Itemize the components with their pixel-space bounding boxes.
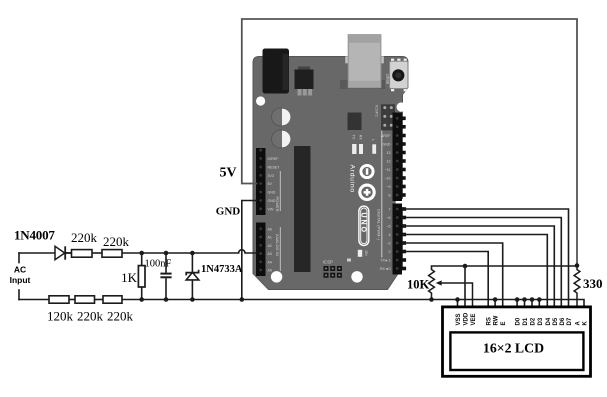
ICSP header <box>324 266 342 278</box>
svg-text:3V3: 3V3 <box>268 174 274 178</box>
LED RX <box>359 144 363 154</box>
mounting hole bottom-left <box>271 271 282 282</box>
wire D0 stub <box>516 300 518 307</box>
svg-text:~10: ~10 <box>384 177 390 181</box>
svg-text:4: 4 <box>389 233 391 237</box>
svg-text:E: E <box>501 321 507 325</box>
silkscreen divider line <box>381 131 383 258</box>
wire digital pin3 to LCD E <box>402 243 503 307</box>
node junction pot bottom on GND rail <box>429 297 434 302</box>
USB pad on board <box>340 80 385 89</box>
wire digital pin6 to LCD D6 <box>402 218 561 307</box>
wire VSS stub <box>457 300 459 307</box>
header silkscreen labels <box>268 134 392 273</box>
IC ATmega16U2 <box>348 113 362 131</box>
svg-text:2: 2 <box>389 250 391 254</box>
capacitor C6 electrolytic <box>272 130 290 148</box>
svg-text:~3: ~3 <box>386 242 390 246</box>
wire RW stub <box>494 300 496 307</box>
node junction D3 <box>537 297 542 302</box>
svg-text:220k: 220k <box>107 309 134 324</box>
svg-text:VIN: VIN <box>268 207 274 211</box>
wire digital pin7 to LCD D7 <box>402 209 569 307</box>
svg-text:D2: D2 <box>531 317 537 325</box>
svg-text:POWER: POWER <box>275 197 280 212</box>
svg-text:~9: ~9 <box>386 185 390 189</box>
node junction zener bottom <box>190 297 195 302</box>
svg-text:Arduino: Arduino <box>349 165 356 193</box>
pin nubs right headers <box>402 117 407 271</box>
wire digital pin5 to LCD D5 <box>402 226 554 307</box>
svg-text:TX: TX <box>352 135 356 140</box>
svg-text:RX◄0: RX◄0 <box>380 267 391 271</box>
svg-text:7: 7 <box>389 208 391 212</box>
svg-text:1K: 1K <box>121 270 138 285</box>
wire D3 stub <box>538 300 540 307</box>
digital header strip upper <box>393 113 403 202</box>
svg-text:~6: ~6 <box>386 216 390 220</box>
svg-text:VDD: VDD <box>464 312 470 325</box>
reset button SW1 <box>391 59 394 63</box>
svg-text:16×2 LCD: 16×2 LCD <box>483 341 544 356</box>
node junction RW on GND rail <box>493 297 498 302</box>
svg-text:RW: RW <box>494 315 500 325</box>
svg-text:12: 12 <box>387 160 391 164</box>
svg-text:D7: D7 <box>567 317 573 325</box>
node junction 5V/330/pot-top <box>575 263 580 268</box>
wire digital pin2 to LCD RS <box>402 252 488 307</box>
node junction GND wire to bottom rail <box>240 297 245 302</box>
svg-text:D0: D0 <box>516 317 522 325</box>
digital header strip lower <box>393 204 403 275</box>
wire bottom rail (GND rail, AC- to LCD K) <box>19 299 49 301</box>
LED ON <box>358 250 362 257</box>
mounting hole top-left <box>256 96 265 105</box>
wire digital pin4 to LCD D4 <box>402 235 547 307</box>
UNO oval logo <box>359 206 369 245</box>
node junction zener top <box>190 251 195 256</box>
svg-text:RESET: RESET <box>386 73 390 84</box>
wire 5V from Arduino 5V pin up over the top to right side <box>242 19 577 266</box>
node junction D1 <box>522 297 527 302</box>
capacitor C1 100nF <box>160 253 171 300</box>
wire GND from Arduino GND pin down to bottom rail <box>242 201 257 300</box>
svg-text:GND: GND <box>216 206 241 218</box>
svg-text:GND: GND <box>383 143 391 147</box>
wire 5V rail to pot top and VDD <box>432 266 578 270</box>
svg-text:RX: RX <box>359 135 363 141</box>
resistor R5 220k (bottom) <box>103 296 122 303</box>
svg-text:220k: 220k <box>77 309 104 324</box>
resistor R2 220k (top) <box>102 250 122 258</box>
svg-text:RESET: RESET <box>268 166 281 170</box>
diode D1 1N4007 <box>55 246 72 259</box>
svg-text:A4: A4 <box>268 260 272 264</box>
svg-text:A3: A3 <box>268 252 272 256</box>
svg-text:D5: D5 <box>553 317 559 325</box>
svg-text:1N4733A: 1N4733A <box>201 264 243 275</box>
svg-text:220k: 220k <box>103 234 130 249</box>
node junction VSS on GND rail <box>455 297 460 302</box>
LED TX <box>352 144 356 154</box>
wire D2 stub <box>531 300 533 307</box>
resistor R6 1K (vertical) <box>138 253 145 300</box>
node AC top terminal tick <box>18 253 20 263</box>
svg-text:DIGITAL (PWM~): DIGITAL (PWM~) <box>376 209 381 241</box>
resistor R1 220k (top) <box>72 250 93 258</box>
svg-text:D6: D6 <box>560 317 566 325</box>
svg-text:1N4007: 1N4007 <box>14 228 55 243</box>
svg-text:A5: A5 <box>268 269 272 273</box>
svg-text:GND: GND <box>268 199 276 203</box>
mounting hole bottom-right <box>351 271 362 282</box>
header pin dots <box>259 117 398 272</box>
svg-text:ICSP2: ICSP2 <box>375 105 380 117</box>
svg-text:IOREF: IOREF <box>268 157 280 161</box>
svg-text:A2: A2 <box>268 244 272 248</box>
LCD module 16x2 <box>443 307 591 376</box>
capacitor C5 electrolytic <box>272 108 290 126</box>
wire top rail (divider output, AC+ to A3) <box>19 252 55 254</box>
diode D2 zener 1N4733A <box>186 253 199 300</box>
power header strip <box>256 148 266 215</box>
resistor R7 330 <box>574 266 580 307</box>
svg-text:ICSP: ICSP <box>323 260 333 265</box>
LCD pin labels <box>456 312 589 325</box>
analog header strip <box>256 223 266 277</box>
svg-text:D1: D1 <box>523 317 529 325</box>
svg-text:VSS: VSS <box>456 313 462 325</box>
svg-text:ON: ON <box>364 251 368 257</box>
LED L <box>372 144 376 154</box>
node junction cap top <box>164 251 169 256</box>
node AC bottom terminal tick <box>18 290 20 300</box>
resistor R3 120k (bottom) <box>49 296 69 303</box>
svg-text:Input: Input <box>10 275 31 285</box>
svg-text:A0: A0 <box>268 227 272 231</box>
svg-text:100nF: 100nF <box>145 259 172 270</box>
wire VDD drop <box>464 266 466 307</box>
svg-text:5V: 5V <box>268 182 273 186</box>
svg-text:AC: AC <box>14 265 26 275</box>
svg-text:D3: D3 <box>538 317 544 325</box>
node junction D2 <box>530 297 535 302</box>
svg-text:220k: 220k <box>71 230 98 245</box>
svg-text:RS: RS <box>487 317 493 325</box>
svg-text:330: 330 <box>583 276 603 291</box>
svg-text:D4: D4 <box>546 317 552 325</box>
node junction cap bottom <box>164 297 169 302</box>
svg-text:TX►1: TX►1 <box>380 259 390 263</box>
potentiometer RV1 10K <box>429 270 473 307</box>
Arduino UNO board U1 <box>253 35 408 290</box>
svg-text:UNO: UNO <box>359 213 366 235</box>
svg-text:~5: ~5 <box>386 225 390 229</box>
svg-text:AREF: AREF <box>381 134 391 138</box>
node junction D0 <box>515 297 520 302</box>
mounting hole top-right <box>397 102 406 111</box>
mounting hole mid-right <box>396 198 406 208</box>
svg-text:ANALOG IN: ANALOG IN <box>275 234 280 256</box>
svg-text:~11: ~11 <box>385 168 391 172</box>
node junction 1K bottom <box>139 297 144 302</box>
IC ATmega328 <box>294 146 311 272</box>
svg-text:10K: 10K <box>407 278 430 292</box>
svg-text:GND: GND <box>268 191 276 195</box>
svg-text:8: 8 <box>389 194 391 198</box>
svg-text:A: A <box>576 321 582 326</box>
board PCB body <box>253 57 408 290</box>
svg-text:5V: 5V <box>219 166 236 181</box>
resistor R4 220k (bottom) <box>75 296 95 303</box>
ICSP2 header <box>381 104 395 130</box>
voltage regulator VR1 <box>298 67 310 72</box>
svg-text:120k: 120k <box>47 309 74 324</box>
node junction 1K top <box>139 251 144 256</box>
Arduino infinity logo <box>361 165 373 177</box>
svg-text:VEE: VEE <box>471 313 477 325</box>
DC jack J1 <box>263 49 290 94</box>
USB connector J2 <box>345 56 384 63</box>
wire D1 stub <box>524 300 526 307</box>
node junction VDD tap <box>463 264 468 269</box>
svg-text:A1: A1 <box>268 236 272 240</box>
svg-text:13: 13 <box>387 151 391 155</box>
svg-text:K: K <box>583 321 589 326</box>
svg-text:L: L <box>371 139 375 141</box>
